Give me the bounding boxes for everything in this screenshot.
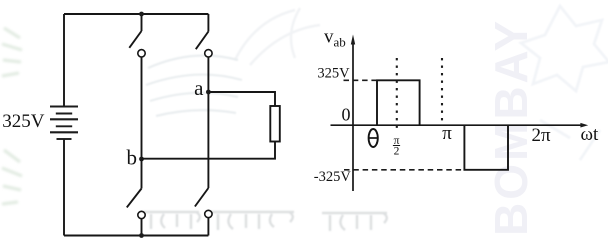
watermark faint arcs	[146, 56, 242, 117]
svg-text:2: 2	[394, 145, 400, 157]
wire right leg middle	[207, 57, 209, 188]
node b	[139, 157, 144, 162]
svg-text:a: a	[194, 76, 204, 100]
svg-text:π: π	[442, 123, 452, 144]
axis y	[352, 42, 354, 191]
switch S2 (bottom-right)	[195, 188, 212, 236]
watermark bottom motto	[143, 212, 387, 231]
wire bottom rail	[64, 235, 208, 237]
switch S4 (bottom-left)	[127, 159, 145, 236]
switch S3 (top-right)	[196, 14, 212, 57]
svg-text:0: 0	[342, 105, 351, 125]
waveform positive pulse	[377, 80, 420, 125]
node bottom junction	[139, 233, 144, 238]
svg-text:vab: vab	[324, 27, 346, 50]
dashed level +325V	[344, 79, 378, 81]
svg-text:325V: 325V	[317, 66, 350, 82]
dotted line pi/2	[396, 58, 398, 130]
wire load top (a to resistor)	[208, 92, 275, 106]
battery B1	[50, 107, 78, 140]
watermark right emblem outline	[521, 6, 608, 160]
watermark faint top arcs	[235, 8, 320, 65]
wire left rail upper	[63, 14, 65, 107]
svg-text:2π: 2π	[532, 125, 552, 146]
wire left leg middle	[141, 57, 143, 159]
svg-text:b: b	[127, 145, 138, 169]
wire top rail	[64, 13, 208, 15]
switch S1 (top-left)	[129, 14, 145, 57]
svg-text:-325V: -325V	[314, 169, 352, 185]
waveform negative pulse	[464, 125, 508, 170]
wire load bottom (resistor to b)	[142, 142, 276, 159]
axis x	[331, 124, 582, 126]
watermark left green marks	[2, 28, 22, 204]
dashed level -325V	[344, 169, 464, 171]
wire left rail lower	[63, 139, 65, 236]
node top junction	[139, 12, 144, 17]
resistor R load	[270, 106, 280, 142]
dotted line pi	[441, 58, 443, 126]
node a	[206, 90, 211, 95]
label theta	[369, 129, 378, 147]
svg-text:325V: 325V	[2, 111, 45, 132]
label pi/2 fraction	[393, 135, 400, 158]
svg-text:ωt: ωt	[581, 124, 600, 145]
